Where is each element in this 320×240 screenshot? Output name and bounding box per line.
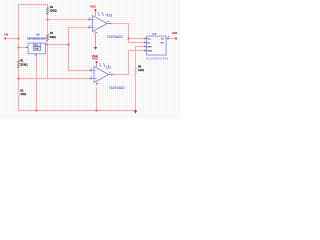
- svg-text:ADS8685IPW: ADS8685IPW: [146, 56, 168, 60]
- svg-text:R3: R3: [50, 5, 54, 9]
- svg-text:GND: GND: [34, 48, 39, 50]
- svg-text:IN-: IN-: [148, 42, 151, 44]
- svg-text:R2: R2: [20, 89, 24, 93]
- svg-text:R6: R6: [138, 65, 142, 69]
- svg-text:OUT: OUT: [172, 31, 178, 35]
- svg-text:8.9kΩ: 8.9kΩ: [50, 35, 56, 39]
- svg-text:10kΩ: 10kΩ: [138, 68, 144, 72]
- svg-text:30.0kΩ: 30.0kΩ: [50, 9, 57, 13]
- svg-text:TL071ACD: TL071ACD: [109, 86, 125, 90]
- svg-text:R1: R1: [20, 59, 24, 63]
- svg-text:30.0kΩ: 30.0kΩ: [20, 62, 27, 66]
- svg-text:U4: U4: [152, 32, 156, 36]
- svg-text:VCC: VCC: [90, 5, 97, 9]
- svg-text:VO: VO: [161, 38, 164, 40]
- svg-text:REF: REF: [148, 46, 153, 48]
- svg-text:VEE: VEE: [92, 54, 98, 58]
- svg-text:TL071ACD: TL071ACD: [107, 35, 123, 39]
- svg-text:VIN: VIN: [34, 45, 38, 47]
- svg-text:U2: U2: [107, 14, 112, 18]
- svg-text:GND: GND: [148, 50, 153, 52]
- svg-text:10kΩ: 10kΩ: [20, 92, 26, 96]
- svg-text:R4: R4: [50, 31, 54, 35]
- svg-text:U1: U1: [106, 66, 111, 70]
- svg-text:REF5040AIDGKR: REF5040AIDGKR: [27, 37, 46, 41]
